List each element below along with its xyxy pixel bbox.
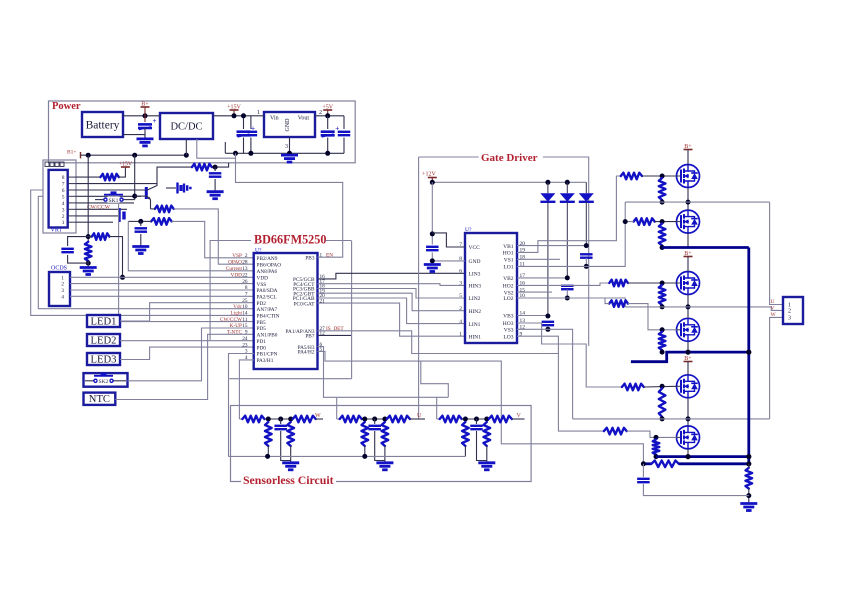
svg-text:14: 14 xyxy=(242,311,248,317)
svg-text:LED1: LED1 xyxy=(91,317,117,328)
svg-text:VDD: VDD xyxy=(231,273,243,279)
svg-text:VDD: VDD xyxy=(257,276,269,282)
svg-text:PB3: PB3 xyxy=(305,255,314,261)
svg-text:Current: Current xyxy=(226,266,243,272)
svg-text:8: 8 xyxy=(62,175,65,181)
svg-text:Sensorless Circuit: Sensorless Circuit xyxy=(243,473,334,487)
svg-text:B1+: B1+ xyxy=(67,150,77,156)
svg-text:LED2: LED2 xyxy=(91,336,117,347)
svg-text:V: V xyxy=(517,413,522,419)
svg-text:VSS: VSS xyxy=(257,282,267,288)
svg-text:11: 11 xyxy=(242,317,247,323)
svg-text:VB2: VB2 xyxy=(503,276,514,282)
svg-text:PB6/OPAO: PB6/OPAO xyxy=(257,262,282,268)
svg-text:CW/CCW: CW/CCW xyxy=(87,205,111,211)
svg-text:HIN2: HIN2 xyxy=(469,309,482,315)
svg-text:OPAO: OPAO xyxy=(228,259,242,265)
svg-text:PB2/AN9: PB2/AN9 xyxy=(257,256,278,262)
svg-text:GND: GND xyxy=(469,259,481,265)
svg-text:3: 3 xyxy=(62,207,65,213)
svg-text:PD5: PD5 xyxy=(257,326,267,332)
svg-text:PD0: PD0 xyxy=(257,345,267,351)
svg-text:1: 1 xyxy=(257,110,260,116)
svg-text:Vin: Vin xyxy=(270,116,279,122)
svg-text:LIN3: LIN3 xyxy=(469,272,481,278)
svg-text:PB7: PB7 xyxy=(305,334,314,340)
svg-text:VCC: VCC xyxy=(469,245,481,251)
svg-text:2: 2 xyxy=(459,306,462,312)
svg-text:K-UP: K-UP xyxy=(230,323,242,329)
svg-text:PC0/GAT: PC0/GAT xyxy=(294,301,316,307)
svg-text:6: 6 xyxy=(459,269,462,275)
svg-text:LED3: LED3 xyxy=(91,355,117,366)
svg-text:PD1: PD1 xyxy=(257,339,267,345)
svg-text:V: V xyxy=(771,306,775,312)
svg-text:+: + xyxy=(153,117,157,125)
svg-text:1: 1 xyxy=(459,331,462,337)
svg-text:7: 7 xyxy=(245,292,248,298)
svg-text:5: 5 xyxy=(62,194,65,200)
svg-text:BD66FM5250: BD66FM5250 xyxy=(254,233,326,247)
svg-text:6: 6 xyxy=(62,188,65,194)
svg-text:22: 22 xyxy=(242,273,248,279)
svg-text:9: 9 xyxy=(245,330,248,336)
svg-text:PA2/SCL: PA2/SCL xyxy=(257,295,277,301)
svg-text:U: U xyxy=(771,299,775,305)
svg-text:Vdc: Vdc xyxy=(233,304,242,310)
svg-text:PB1/CPN: PB1/CPN xyxy=(257,352,278,358)
svg-text:Power: Power xyxy=(52,101,81,112)
svg-text:3: 3 xyxy=(459,281,462,287)
svg-text:SK1: SK1 xyxy=(109,198,119,204)
svg-text:PA3/H1: PA3/H1 xyxy=(257,358,274,364)
svg-text:2: 2 xyxy=(788,308,791,314)
svg-text:+15V: +15V xyxy=(119,161,133,167)
svg-text:VS3: VS3 xyxy=(504,328,514,334)
svg-text:LIN2: LIN2 xyxy=(469,296,481,302)
svg-text:+15V: +15V xyxy=(227,104,241,110)
svg-text:3: 3 xyxy=(285,144,288,150)
svg-text:OCDS: OCDS xyxy=(51,266,67,272)
svg-text:LO2: LO2 xyxy=(503,296,513,302)
svg-text:1: 1 xyxy=(62,220,65,226)
svg-text:15: 15 xyxy=(242,323,248,329)
svg-text:PB4/CTIN: PB4/CTIN xyxy=(257,314,280,320)
svg-text:LO3: LO3 xyxy=(503,334,513,340)
svg-text:CW/CCW: CW/CCW xyxy=(220,317,242,323)
svg-text:DC/DC: DC/DC xyxy=(170,122,202,133)
svg-text:HO1: HO1 xyxy=(503,251,514,257)
svg-text:26: 26 xyxy=(242,279,248,285)
svg-text:PA4/H2: PA4/H2 xyxy=(298,350,315,356)
svg-text:GND: GND xyxy=(285,118,291,132)
svg-text:B+: B+ xyxy=(684,144,692,150)
svg-text:+12V: +12V xyxy=(422,171,436,177)
svg-text:PB5: PB5 xyxy=(257,320,266,326)
svg-text:23: 23 xyxy=(242,342,248,348)
svg-text:8: 8 xyxy=(245,285,248,291)
svg-text:B+: B+ xyxy=(684,251,692,257)
svg-text:VS1: VS1 xyxy=(504,258,514,264)
svg-text:13: 13 xyxy=(242,266,248,272)
svg-text:VR1: VR1 xyxy=(51,228,62,234)
svg-text:AN8/PA6: AN8/PA6 xyxy=(257,269,278,275)
svg-text:4: 4 xyxy=(61,294,64,300)
svg-text:1: 1 xyxy=(61,275,64,281)
svg-text:AN1/PB0: AN1/PB0 xyxy=(257,333,278,339)
svg-text:T-NTC: T-NTC xyxy=(227,330,243,336)
svg-text:Battery: Battery xyxy=(86,120,120,132)
svg-text:+5V: +5V xyxy=(322,104,333,110)
svg-text:HO3: HO3 xyxy=(503,321,514,327)
svg-text:W: W xyxy=(315,413,321,419)
svg-text:AN7/PA7: AN7/PA7 xyxy=(257,307,278,313)
svg-text:LO1: LO1 xyxy=(503,265,513,271)
svg-text:Light: Light xyxy=(231,311,243,317)
svg-text:10: 10 xyxy=(242,304,248,310)
svg-text:Vout: Vout xyxy=(298,116,310,122)
svg-text:7: 7 xyxy=(62,182,65,188)
svg-text:VB3: VB3 xyxy=(503,314,514,320)
svg-text:3: 3 xyxy=(788,315,791,321)
svg-text:4: 4 xyxy=(62,201,65,207)
svg-text:HIN1: HIN1 xyxy=(469,334,482,340)
svg-text:LIN1: LIN1 xyxy=(469,322,481,328)
svg-text:SK2: SK2 xyxy=(99,379,109,385)
svg-text:HO2: HO2 xyxy=(503,284,514,290)
svg-text:VSP: VSP xyxy=(232,253,242,259)
svg-text:28: 28 xyxy=(242,259,248,265)
svg-text:W: W xyxy=(771,312,777,318)
svg-text:2: 2 xyxy=(62,214,65,220)
svg-text:2: 2 xyxy=(319,110,322,116)
svg-text:5: 5 xyxy=(459,293,462,299)
svg-text:3: 3 xyxy=(61,288,64,294)
svg-text:B+: B+ xyxy=(684,356,692,362)
svg-text:4: 4 xyxy=(459,319,462,325)
svg-text:B+: B+ xyxy=(141,101,149,107)
svg-text:2: 2 xyxy=(245,253,248,259)
svg-text:VB1: VB1 xyxy=(503,244,514,250)
svg-text:NTC: NTC xyxy=(89,394,110,405)
svg-text:24: 24 xyxy=(242,336,248,342)
svg-text:U: U xyxy=(417,413,422,419)
svg-text:2: 2 xyxy=(61,282,64,288)
svg-text:HIN3: HIN3 xyxy=(469,284,482,290)
svg-text:PA0/SDA: PA0/SDA xyxy=(257,288,278,294)
svg-text:Gate Driver: Gate Driver xyxy=(481,152,538,164)
